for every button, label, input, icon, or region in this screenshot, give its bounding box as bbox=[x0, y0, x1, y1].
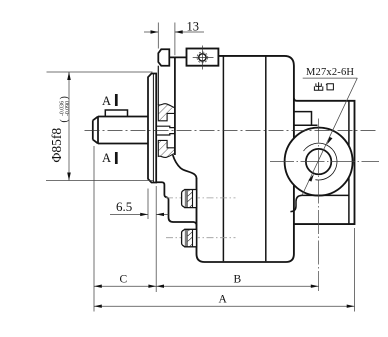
flange plate bbox=[148, 74, 156, 183]
text phi85f8 with tolerances rotated bbox=[49, 96, 71, 162]
leader M27 underline bbox=[303, 77, 358, 79]
svg-text:13: 13 bbox=[187, 20, 200, 34]
dim 6.5 line and arrows bbox=[110, 213, 169, 215]
shaft bbox=[93, 117, 150, 144]
dim C B line bbox=[94, 285, 319, 287]
stud centerline upper bbox=[166, 197, 236, 199]
svg-text:B: B bbox=[234, 274, 242, 286]
seal gland top bbox=[158, 49, 169, 65]
dim phi85 extension top bbox=[47, 71, 153, 73]
leader M27 line bbox=[302, 78, 357, 195]
section A-A cut bar lower bbox=[115, 152, 118, 164]
front cover face line bbox=[157, 66, 159, 105]
neck top line bbox=[169, 56, 187, 58]
svg-text:): ) bbox=[59, 96, 70, 99]
dim 13 extension lines bbox=[158, 23, 175, 56]
svg-text:(: ( bbox=[59, 119, 70, 123]
rear cover block bbox=[294, 98, 355, 224]
key on shaft bbox=[105, 110, 127, 116]
dim 6.5 extension lines bbox=[148, 186, 156, 292]
front cover S-curve to body bbox=[173, 155, 197, 179]
section A-A cut bar upper bbox=[115, 94, 118, 106]
front cover foot staircase bbox=[156, 182, 196, 225]
port horizontal centerline bbox=[270, 161, 379, 163]
hatch lower bearing block bbox=[158, 140, 175, 157]
port thread arc bbox=[304, 143, 337, 180]
text chukou outlet glyphs bbox=[314, 82, 333, 90]
dim B arrows bbox=[156, 285, 318, 288]
stud upper bbox=[182, 190, 197, 208]
dim phi85 line bbox=[68, 72, 70, 181]
svg-text:A: A bbox=[102, 94, 111, 108]
leader arrows bbox=[308, 137, 332, 182]
dim 13 line and arrows bbox=[144, 31, 204, 33]
svg-text:A: A bbox=[219, 294, 228, 306]
svg-text:C: C bbox=[120, 274, 128, 286]
body front face bbox=[174, 57, 176, 155]
hatch upper bearing block bbox=[158, 104, 175, 121]
dim A line bbox=[94, 305, 355, 307]
stud centerline lower bbox=[166, 237, 236, 239]
dim A arrows bbox=[94, 305, 355, 308]
J-hook under port bbox=[290, 195, 301, 211]
body internal vertical 2 bbox=[265, 57, 267, 262]
body outline bbox=[197, 56, 294, 262]
svg-text:-0.090: -0.090 bbox=[65, 101, 71, 116]
wire main shaft centerline bbox=[85, 130, 379, 132]
rear cover notch step bbox=[294, 112, 318, 126]
port vertical centerline bbox=[318, 119, 320, 292]
boss hole circle bbox=[199, 54, 206, 61]
stud lower bbox=[182, 229, 197, 247]
svg-text:A: A bbox=[102, 151, 111, 165]
svg-text:M27x2-6H: M27x2-6H bbox=[306, 67, 354, 78]
body internal vertical 1 bbox=[222, 57, 224, 262]
tangent line under port bbox=[301, 194, 349, 196]
boss thread dashed circle bbox=[197, 52, 208, 63]
top boss bbox=[187, 49, 219, 66]
dim phi85 extension bottom bbox=[46, 180, 153, 182]
bottom extension lines bbox=[94, 146, 355, 312]
flange inner line bbox=[152, 74, 154, 183]
rear cover inner strip bbox=[348, 101, 350, 224]
boss crosshair bbox=[193, 46, 214, 70]
svg-text:6.5: 6.5 bbox=[116, 199, 132, 214]
dim C arrows bbox=[94, 285, 156, 288]
svg-text:Φ85f8: Φ85f8 bbox=[49, 128, 64, 163]
port hole circle bbox=[306, 149, 331, 174]
dim phi85 arrows bbox=[67, 72, 71, 181]
hub shaft step bbox=[156, 126, 175, 135]
port outer circle bbox=[285, 128, 353, 196]
